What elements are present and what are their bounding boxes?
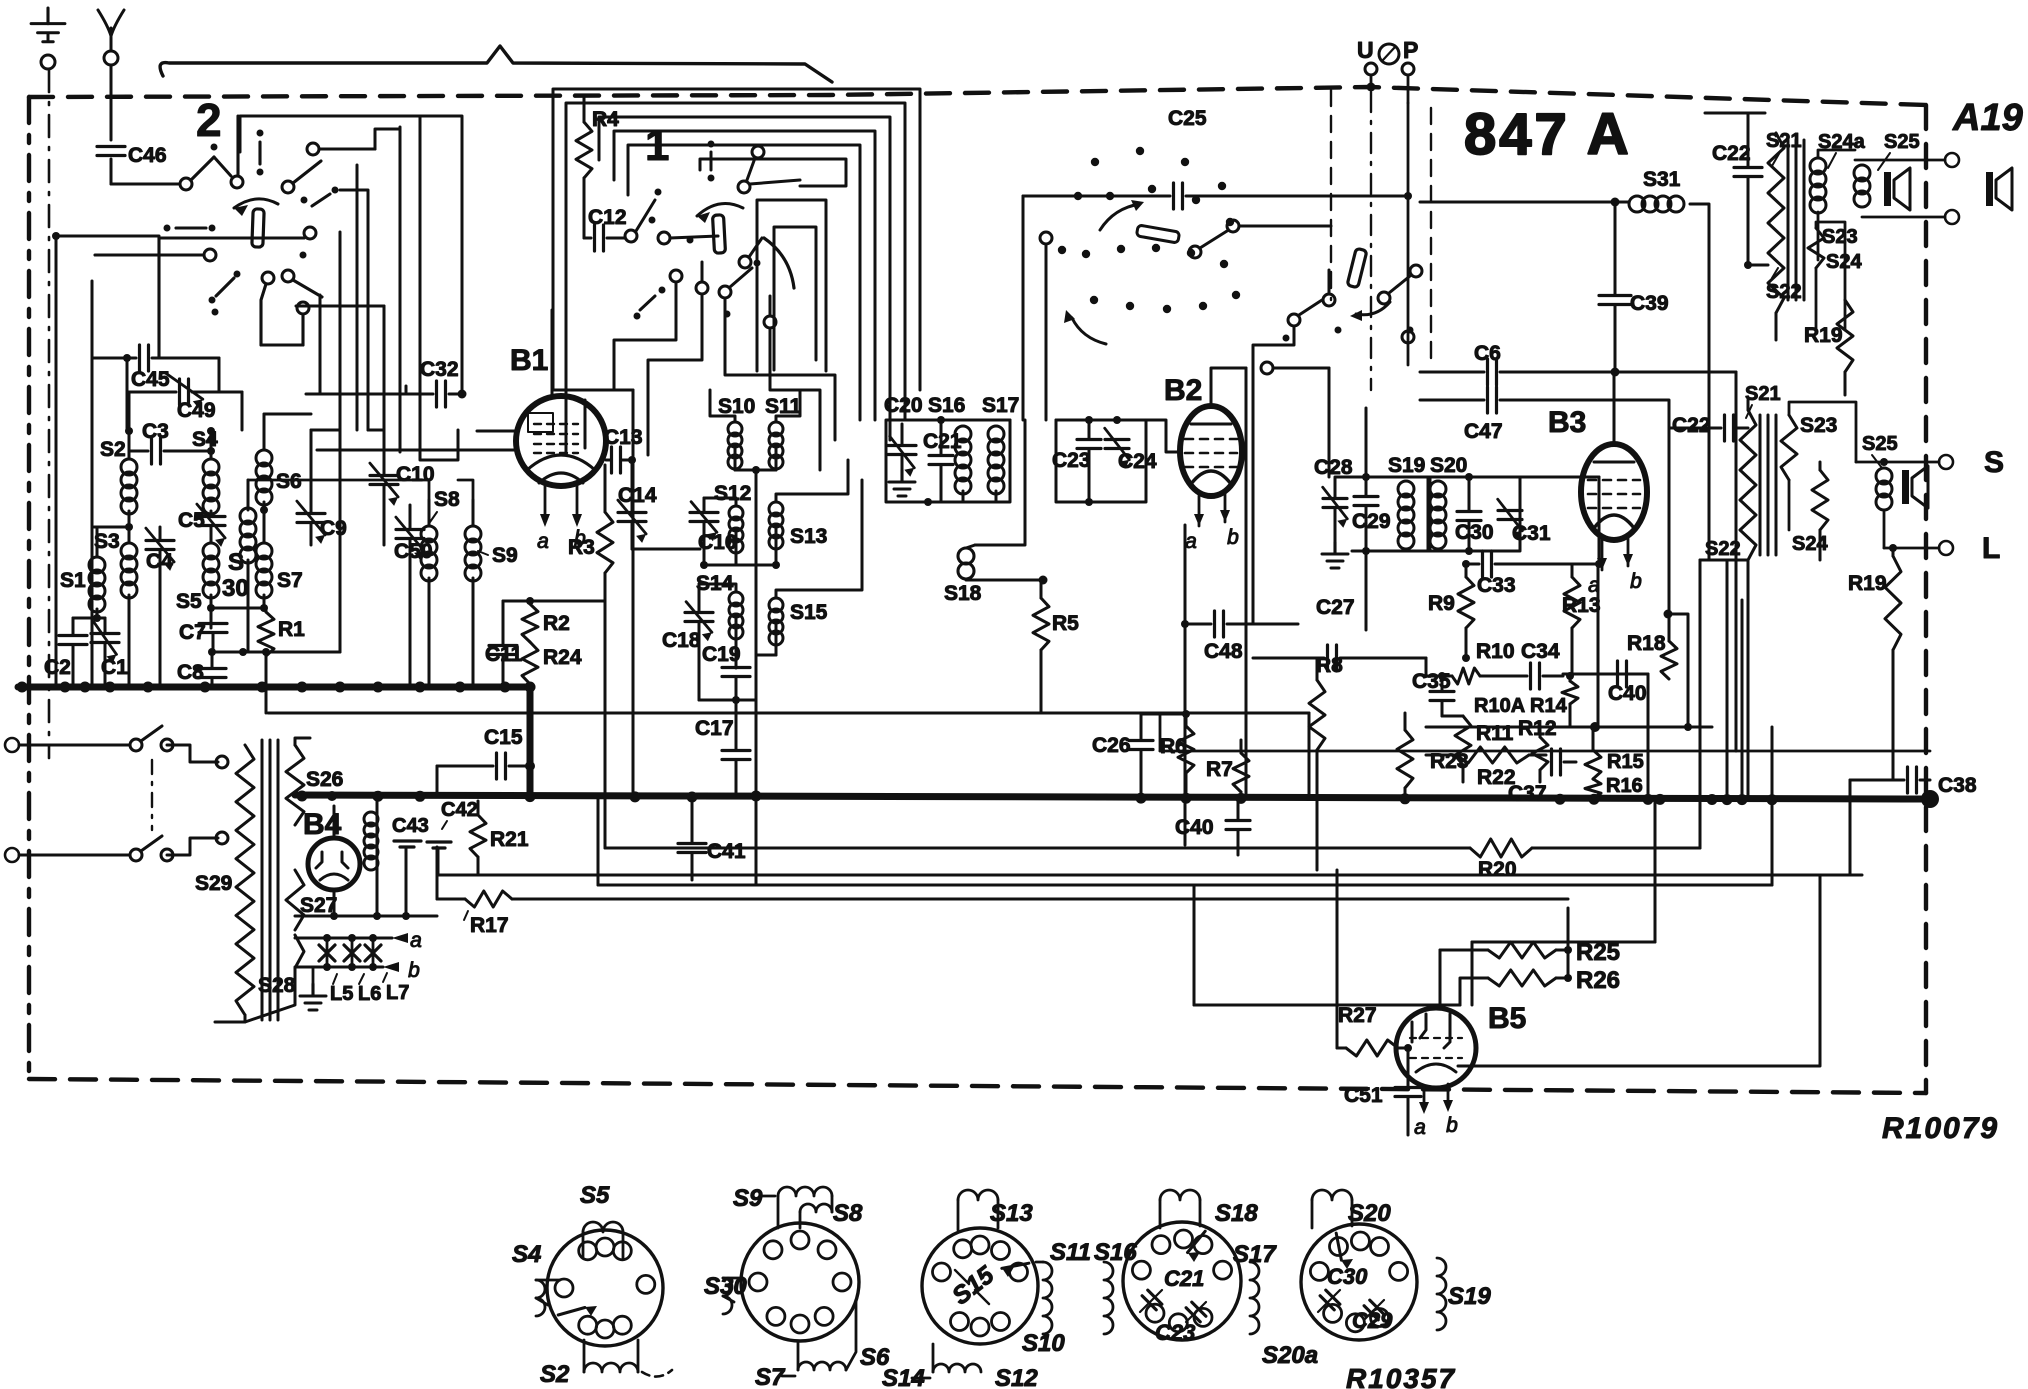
svg-text:A19: A19 bbox=[1952, 97, 2023, 139]
svg-text:S29: S29 bbox=[195, 872, 232, 895]
coil S2 bbox=[121, 392, 137, 527]
border bottom bbox=[29, 1079, 1926, 1093]
svg-text:S19: S19 bbox=[1388, 454, 1425, 477]
wire R17 left bbox=[294, 937, 296, 939]
tube B2 bbox=[1180, 378, 1242, 553]
coil S7 bbox=[256, 520, 272, 612]
tube B3 bbox=[1581, 416, 1647, 597]
svg-text:L5: L5 bbox=[330, 983, 353, 1005]
svg-text:S8: S8 bbox=[434, 488, 460, 511]
capacitor C12 bbox=[584, 206, 627, 251]
xfmr2 S21 label bbox=[1745, 383, 1781, 418]
switch 1 rotor bbox=[697, 200, 826, 371]
socket S6 label bbox=[846, 1300, 890, 1371]
svg-text:P: P bbox=[1403, 37, 1418, 63]
svg-text:C49: C49 bbox=[177, 399, 216, 422]
resistor R14 bbox=[1530, 676, 1578, 727]
wire y652 bbox=[212, 648, 311, 656]
wire B5 b down bbox=[1458, 1020, 1820, 1066]
svg-text:C19: C19 bbox=[702, 643, 741, 666]
svg-text:C30: C30 bbox=[1327, 1264, 1368, 1289]
capacitor C6 bbox=[1420, 342, 1736, 385]
resistor R22 bbox=[1426, 747, 1546, 789]
bus A-B link bbox=[527, 687, 534, 795]
socket S9 coil bbox=[733, 1185, 832, 1228]
coil S15 label bbox=[790, 601, 828, 624]
coil S30 label bbox=[222, 549, 249, 602]
wire x1246 bbox=[1245, 368, 1248, 795]
wire box1j bbox=[770, 328, 820, 470]
socket S11 coil bbox=[1036, 1239, 1091, 1334]
svg-text:C37: C37 bbox=[1508, 782, 1547, 805]
wire dash right bbox=[1430, 108, 1432, 360]
svg-text:S22: S22 bbox=[1766, 281, 1802, 303]
svg-text:R21: R21 bbox=[490, 828, 529, 851]
svg-text:R23: R23 bbox=[1430, 750, 1469, 773]
svg-text:C21: C21 bbox=[1164, 1266, 1204, 1291]
trimmer C49 bbox=[165, 373, 215, 422]
wire bbox=[1253, 326, 1294, 624]
wire ladder bbox=[311, 232, 384, 652]
resistor R6 bbox=[1160, 714, 1194, 796]
socket V1 bbox=[547, 1230, 663, 1346]
switch 3 rotor bbox=[1347, 248, 1390, 321]
svg-text:U: U bbox=[1357, 37, 1374, 63]
svg-text:S19: S19 bbox=[1448, 1283, 1491, 1310]
svg-text:a: a bbox=[1185, 530, 1197, 553]
wire P down bbox=[1407, 103, 1410, 365]
capacitor C51 bbox=[1344, 1048, 1421, 1135]
capacitor C23 bbox=[1052, 416, 1101, 506]
svg-text:R26: R26 bbox=[1576, 967, 1620, 994]
tube B4 label bbox=[303, 808, 342, 841]
capacitor C41 bbox=[678, 799, 746, 880]
svg-text:S25: S25 bbox=[1862, 433, 1898, 455]
switch 1 label bbox=[645, 121, 669, 170]
socket V2 bbox=[741, 1223, 859, 1341]
capacitor C33 bbox=[1462, 477, 1603, 597]
capacitor C11 bbox=[485, 601, 523, 687]
wire y1005 bbox=[1194, 885, 1460, 1005]
coil S19 label bbox=[1388, 454, 1425, 477]
wire x1568 bbox=[1567, 908, 1570, 978]
svg-text:a: a bbox=[410, 929, 422, 952]
socket S7 coil bbox=[755, 1342, 846, 1389]
coil S13 bbox=[769, 460, 848, 569]
winding S26 bbox=[286, 738, 310, 838]
socket S14 coil bbox=[882, 1344, 981, 1389]
terminal S bbox=[1856, 446, 2004, 479]
coil S3 label bbox=[94, 530, 120, 553]
resistor R20 bbox=[1470, 839, 1532, 881]
svg-text:R16: R16 bbox=[1606, 775, 1643, 797]
svg-text:C23: C23 bbox=[1052, 449, 1091, 472]
coil S12 label bbox=[714, 482, 751, 505]
socket V3 bbox=[922, 1228, 1038, 1344]
svg-text:S23: S23 bbox=[1822, 226, 1858, 248]
svg-text:C15: C15 bbox=[484, 726, 523, 749]
coil S14 bbox=[699, 584, 743, 666]
coil S4 bbox=[203, 427, 219, 514]
tuning arrow2 bbox=[1064, 310, 1106, 344]
xfmr1 S24 label bbox=[1826, 251, 1862, 273]
svg-text:R12: R12 bbox=[1518, 717, 1557, 740]
svg-text:C18: C18 bbox=[662, 629, 701, 652]
switch 2 block bbox=[95, 116, 375, 358]
capacitor C42 bbox=[427, 799, 478, 875]
terminal L bbox=[1884, 532, 2000, 565]
svg-text:2: 2 bbox=[196, 94, 222, 146]
resistor R4 bbox=[576, 98, 619, 238]
resistor R18 bbox=[1627, 440, 1688, 727]
svg-text:R24: R24 bbox=[543, 646, 582, 669]
tuning panel dots bbox=[1058, 147, 1240, 313]
capacitor C43 bbox=[392, 815, 429, 916]
coil S7 label bbox=[277, 569, 303, 592]
wire mains bbox=[167, 745, 218, 855]
xfmr2 core bbox=[1760, 415, 1776, 555]
coil S8 bbox=[421, 500, 437, 687]
coil S16 label bbox=[928, 394, 965, 417]
lamp labels bbox=[330, 973, 409, 1005]
svg-text:S12: S12 bbox=[995, 1365, 1038, 1389]
svg-text:R17: R17 bbox=[470, 914, 509, 937]
socket V4 bbox=[1123, 1222, 1241, 1340]
svg-text:C39: C39 bbox=[1630, 292, 1669, 315]
wire S17 bracket bbox=[975, 420, 1025, 545]
svg-text:C27: C27 bbox=[1316, 596, 1355, 619]
dash-dot line bbox=[48, 70, 51, 758]
socket S16 coil bbox=[1094, 1239, 1137, 1334]
svg-text:C30: C30 bbox=[1455, 521, 1494, 544]
wire bbox=[110, 65, 113, 140]
svg-text:R10A: R10A bbox=[1474, 695, 1525, 717]
trim C9 bbox=[297, 430, 347, 545]
wire B3 a bbox=[1587, 545, 1589, 560]
wire box1 bbox=[553, 89, 920, 390]
trim C31 bbox=[1498, 477, 1551, 551]
svg-text:R7: R7 bbox=[1206, 758, 1233, 781]
capacitor C27 bbox=[1253, 596, 1426, 671]
tube B5 bbox=[1396, 1008, 1476, 1088]
coil S14 label bbox=[696, 572, 734, 595]
speaker 2 bbox=[1902, 466, 1928, 508]
svg-text:C38: C38 bbox=[1938, 774, 1977, 797]
svg-text:R10357: R10357 bbox=[1346, 1363, 1456, 1389]
svg-text:R1: R1 bbox=[278, 618, 305, 641]
socket S13 coil bbox=[958, 1190, 1033, 1230]
capacitor C15 bbox=[437, 726, 535, 795]
wire y601 bbox=[503, 597, 605, 605]
bus chassis A bbox=[17, 682, 536, 693]
wire B2 top bbox=[1211, 368, 1246, 378]
coil S17 label bbox=[982, 394, 1019, 417]
wire y700 bbox=[699, 696, 756, 704]
xfmr1 sec2 bbox=[1808, 222, 1845, 330]
coil S20 bbox=[1430, 477, 1446, 551]
svg-text:S5: S5 bbox=[176, 590, 202, 613]
capacitor C3 bbox=[129, 420, 215, 464]
xfmr2 S22 label bbox=[1705, 538, 1741, 560]
tube B4 bbox=[308, 806, 360, 916]
capacitor C34 bbox=[1480, 640, 1563, 689]
xfmr2 S24 label bbox=[1792, 533, 1828, 555]
svg-text:S9: S9 bbox=[733, 1185, 763, 1212]
svg-text:b: b bbox=[408, 959, 420, 982]
svg-text:C8: C8 bbox=[177, 661, 204, 684]
terminal A19b bbox=[1862, 210, 1959, 224]
wire vert 552 bbox=[551, 195, 553, 310]
voice coil S25a bbox=[1854, 131, 1920, 216]
svg-text:C20: C20 bbox=[884, 394, 923, 417]
wire bbox=[73, 614, 105, 622]
svg-text:R11: R11 bbox=[1476, 722, 1514, 745]
wire box1c bbox=[599, 117, 890, 440]
svg-text:S18: S18 bbox=[1215, 1200, 1258, 1227]
socket S17 coil bbox=[1233, 1241, 1277, 1334]
tube B1 bbox=[516, 310, 606, 486]
wire y885 bbox=[598, 727, 1772, 885]
coil S11 label bbox=[765, 395, 802, 418]
xfmr1 C22 bbox=[1705, 113, 1765, 265]
socket S10 label bbox=[1022, 1330, 1065, 1357]
capacitor C20 bbox=[884, 394, 923, 496]
svg-text:S9: S9 bbox=[492, 544, 518, 567]
wire right col bbox=[1849, 780, 1852, 875]
wire x1309 bbox=[1308, 713, 1311, 795]
trim C18 bbox=[662, 584, 713, 700]
wire sw3 bbox=[1261, 362, 1329, 477]
switch 3 contacts bbox=[1283, 265, 1423, 365]
socket V5 bbox=[1301, 1224, 1417, 1340]
xfmr1 primary bbox=[1744, 113, 1784, 313]
capacitor C46 bbox=[97, 144, 167, 167]
terminal U post bbox=[1365, 63, 1377, 92]
xfmr1 S24a label bbox=[1818, 131, 1866, 168]
svg-text:847 A: 847 A bbox=[1464, 102, 1632, 167]
coil S18 bbox=[958, 545, 1048, 585]
svg-text:30: 30 bbox=[222, 575, 249, 602]
capacitor C37 bbox=[1508, 749, 1576, 805]
coil S15 bbox=[756, 480, 862, 655]
svg-text:C51: C51 bbox=[1344, 1084, 1383, 1107]
wire bbox=[340, 190, 368, 232]
socket S18 coil bbox=[1160, 1190, 1258, 1228]
coil S16 bbox=[880, 420, 971, 502]
wire B1 grid bbox=[317, 431, 517, 450]
xfmr S26 label bbox=[306, 768, 343, 791]
svg-text:S12: S12 bbox=[714, 482, 751, 505]
svg-text:S1: S1 bbox=[60, 569, 86, 592]
socket C21 bbox=[1140, 1266, 1204, 1312]
svg-text:b: b bbox=[1446, 1114, 1458, 1137]
svg-text:S28: S28 bbox=[258, 974, 296, 997]
terminal U bbox=[1357, 37, 1418, 64]
wire ladder3 bbox=[248, 414, 473, 500]
svg-text:a: a bbox=[537, 530, 549, 553]
lamps L5 L6 L7 bbox=[295, 929, 422, 982]
svg-text:S: S bbox=[1984, 446, 2004, 479]
wire C23 box bbox=[1056, 416, 1146, 502]
svg-text:C22: C22 bbox=[1672, 414, 1711, 437]
resistor R8 bbox=[1309, 654, 1343, 870]
antenna A bbox=[98, 10, 124, 65]
capacitor C19 bbox=[702, 643, 750, 700]
resistor R2 bbox=[522, 604, 570, 642]
capacitor C40b bbox=[1608, 661, 1648, 705]
label R10357 bbox=[1346, 1363, 1456, 1389]
xfmr2 sec bbox=[1781, 402, 1856, 530]
resistor R21 bbox=[470, 801, 529, 875]
capacitor C8 bbox=[177, 652, 226, 687]
winding S28 label bbox=[258, 974, 296, 997]
resistor R19b bbox=[1848, 544, 1901, 780]
socket S12 label bbox=[995, 1365, 1038, 1389]
coil S17 bbox=[988, 420, 1004, 502]
svg-text:S22: S22 bbox=[1705, 538, 1741, 560]
label A19 bbox=[1952, 97, 2023, 139]
svg-text:S11: S11 bbox=[1050, 1239, 1091, 1266]
wire R25 left bbox=[1439, 950, 1442, 1005]
svg-text:C45: C45 bbox=[131, 368, 170, 391]
mains terminal 2 bbox=[5, 848, 130, 862]
xfmr S29 label bbox=[195, 872, 232, 895]
svg-text:C14: C14 bbox=[618, 484, 657, 507]
svg-text:R5: R5 bbox=[1052, 612, 1079, 635]
coil S19 bbox=[1398, 477, 1414, 551]
socket S30 coil bbox=[704, 1273, 747, 1314]
tube B5 label bbox=[1488, 1002, 1526, 1035]
capacitor C38 bbox=[1850, 767, 1977, 797]
capacitor C35 bbox=[1412, 670, 1454, 716]
capacitor C29 bbox=[1352, 477, 1391, 551]
svg-text:S23: S23 bbox=[1800, 414, 1837, 437]
terminal A19a bbox=[1855, 153, 1959, 167]
switch 2 label bbox=[196, 94, 222, 146]
speaker 1 bbox=[1884, 168, 1910, 210]
wire to B2 bbox=[1146, 420, 1181, 452]
svg-text:B5: B5 bbox=[1488, 1002, 1526, 1035]
resistor R15 bbox=[1585, 727, 1644, 779]
svg-text:C23: C23 bbox=[1155, 1320, 1195, 1345]
coil S12 bbox=[704, 498, 743, 565]
svg-text:R9: R9 bbox=[1428, 592, 1455, 615]
coil S31 bbox=[1420, 168, 1709, 560]
socket C30 bbox=[1318, 1264, 1368, 1312]
svg-text:R19: R19 bbox=[1848, 572, 1887, 595]
wire x1366 bbox=[1362, 408, 1370, 630]
coil S4 label bbox=[192, 428, 218, 451]
coil S3 bbox=[94, 523, 137, 598]
socket S19 coil bbox=[1427, 1258, 1491, 1330]
trim C10 bbox=[370, 436, 435, 545]
wire ladder2 bbox=[406, 116, 458, 460]
wire box1b bbox=[566, 103, 905, 455]
capacitor C7 bbox=[179, 621, 227, 656]
wire B5 right bbox=[1819, 875, 1822, 1020]
label R10A bbox=[1474, 695, 1525, 717]
svg-text:C3: C3 bbox=[142, 420, 169, 443]
wire dash mid bbox=[1330, 90, 1332, 300]
capacitor C40a bbox=[1175, 798, 1250, 855]
wire x127 bbox=[126, 358, 129, 430]
wire B4 top bbox=[310, 791, 337, 806]
resistor R23 bbox=[1397, 713, 1469, 797]
wire B3 b bbox=[1597, 565, 1600, 727]
svg-text:S24: S24 bbox=[1792, 533, 1828, 555]
resistor R17 bbox=[437, 847, 1568, 937]
coil S10 bbox=[710, 390, 760, 474]
xfmr2 S23 label bbox=[1800, 414, 1837, 437]
label R10079 bbox=[1882, 1112, 1999, 1145]
svg-text:S18: S18 bbox=[944, 582, 982, 605]
wire y916 bbox=[295, 912, 437, 920]
svg-text:S8: S8 bbox=[833, 1200, 863, 1227]
resistor R24 bbox=[522, 642, 582, 687]
svg-text:S26: S26 bbox=[306, 768, 343, 791]
svg-text:S6: S6 bbox=[276, 470, 302, 493]
capacitor C2 bbox=[44, 618, 87, 687]
wire S2 col down bbox=[128, 595, 131, 687]
wire y875 bbox=[437, 780, 1862, 875]
svg-text:R18: R18 bbox=[1627, 632, 1666, 655]
svg-text:B2: B2 bbox=[1164, 374, 1202, 407]
heater coil bbox=[364, 791, 382, 916]
tube B3 label bbox=[1548, 406, 1586, 439]
xfmr1 sec bbox=[1810, 150, 1855, 260]
svg-text:L7: L7 bbox=[386, 982, 409, 1004]
svg-text:S21: S21 bbox=[1745, 383, 1781, 405]
wire y751 bbox=[1160, 713, 1930, 751]
wire B2 b bbox=[1224, 520, 1226, 528]
socket C29 bbox=[1352, 1300, 1393, 1333]
xfmr1 S23 label bbox=[1822, 226, 1858, 248]
svg-text:C42: C42 bbox=[441, 799, 478, 821]
socket S15 label bbox=[947, 1260, 1000, 1310]
wire y565 bbox=[704, 564, 776, 567]
coil S5 bbox=[203, 526, 219, 628]
svg-text:C43: C43 bbox=[392, 815, 429, 837]
capacitor C28 bbox=[1314, 456, 1353, 568]
wire y549 bbox=[632, 548, 700, 551]
trim C16 bbox=[690, 498, 737, 569]
svg-text:R10: R10 bbox=[1476, 640, 1515, 663]
trim C50 bbox=[394, 505, 433, 687]
wire B3 top bbox=[1613, 372, 1616, 444]
chassis line bbox=[160, 46, 832, 82]
svg-text:b: b bbox=[1630, 570, 1642, 593]
bus B dots bbox=[297, 791, 1778, 806]
coil S20 label bbox=[1430, 454, 1467, 477]
wire y674 bbox=[1563, 672, 1648, 680]
svg-text:C17: C17 bbox=[695, 717, 734, 740]
svg-text:C34: C34 bbox=[1521, 640, 1560, 663]
socket S20 coil bbox=[1312, 1190, 1391, 1228]
svg-text:R15: R15 bbox=[1607, 751, 1644, 773]
winding S27 bbox=[286, 838, 304, 930]
terminal P post bbox=[1402, 63, 1414, 103]
wire y727 bbox=[1426, 722, 1712, 732]
tube B5 leads bbox=[1414, 1084, 1458, 1139]
coil S13 label bbox=[790, 525, 827, 548]
coil S30 bbox=[240, 480, 256, 652]
resistor R1 bbox=[258, 608, 305, 687]
svg-text:S25: S25 bbox=[1884, 131, 1920, 153]
coil S6 bbox=[256, 420, 272, 520]
svg-text:S16: S16 bbox=[928, 394, 965, 417]
wire col x56 bbox=[55, 236, 58, 687]
svg-text:R2: R2 bbox=[543, 612, 570, 635]
